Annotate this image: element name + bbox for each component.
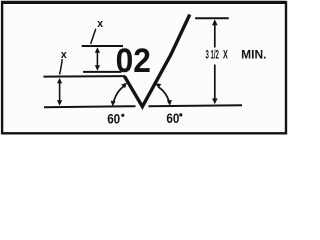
svg-text:x: x bbox=[97, 18, 103, 30]
svg-text:3 1/2: 3 1/2 bbox=[206, 47, 220, 61]
bottom surface line D left segment bbox=[44, 106, 136, 107]
svg-text:60: 60 bbox=[166, 111, 179, 126]
V groove outline bbox=[125, 15, 190, 107]
dimension arrow 3 shaft lower bbox=[214, 65, 216, 102]
plate top surface line C bbox=[43, 75, 125, 78]
right 60 degree angle arc bbox=[158, 87, 169, 103]
white gap behind 3 1/2 text bbox=[204, 48, 268, 61]
right arc top arrowhead bbox=[155, 83, 161, 88]
dimension arrow 1 shaft (upper x) bbox=[96, 49, 98, 69]
left 60 degree angle arc bbox=[113, 86, 124, 104]
svg-text:X: X bbox=[223, 47, 228, 61]
left arc bottom arrowhead bbox=[111, 101, 116, 107]
dimension arrow 3 down arrowhead bbox=[212, 98, 218, 104]
dimension arrow 3 up arrowhead bbox=[212, 19, 218, 25]
top extension line for 3 1/2 dimension bbox=[195, 17, 229, 19]
svg-text:02: 02 bbox=[116, 42, 151, 80]
left arc top arrowhead bbox=[121, 83, 127, 89]
bottom surface line D right segment bbox=[149, 105, 243, 106]
border frame bbox=[2, 2, 286, 133]
right degree dot bbox=[179, 113, 182, 116]
dimension arrow 2 down arrowhead bbox=[57, 100, 62, 106]
left degree dot bbox=[121, 114, 124, 117]
right arc bottom arrowhead bbox=[167, 100, 172, 106]
leader line for top x bbox=[91, 29, 96, 44]
svg-text:x: x bbox=[61, 49, 67, 61]
svg-text:60: 60 bbox=[107, 112, 120, 127]
paper background bbox=[0, 0, 295, 140]
dimension arrow 1 down arrowhead bbox=[95, 65, 100, 71]
dimension arrow 1 up arrowhead bbox=[95, 47, 100, 53]
dimension arrow 3 shaft upper (3 1/2 X MIN.) bbox=[214, 21, 216, 48]
leader line for left x bbox=[60, 59, 63, 75]
dimension arrow 2 shaft (lower x) bbox=[59, 80, 61, 103]
extension line B (bottom of upper x dimension) bbox=[83, 71, 122, 73]
border frame top thick edge bbox=[1, 1, 287, 4]
extension line A (top of upper x dimension) bbox=[82, 45, 123, 47]
dimension arrow 2 up arrowhead bbox=[57, 78, 62, 84]
svg-text:MIN.: MIN. bbox=[241, 47, 266, 61]
